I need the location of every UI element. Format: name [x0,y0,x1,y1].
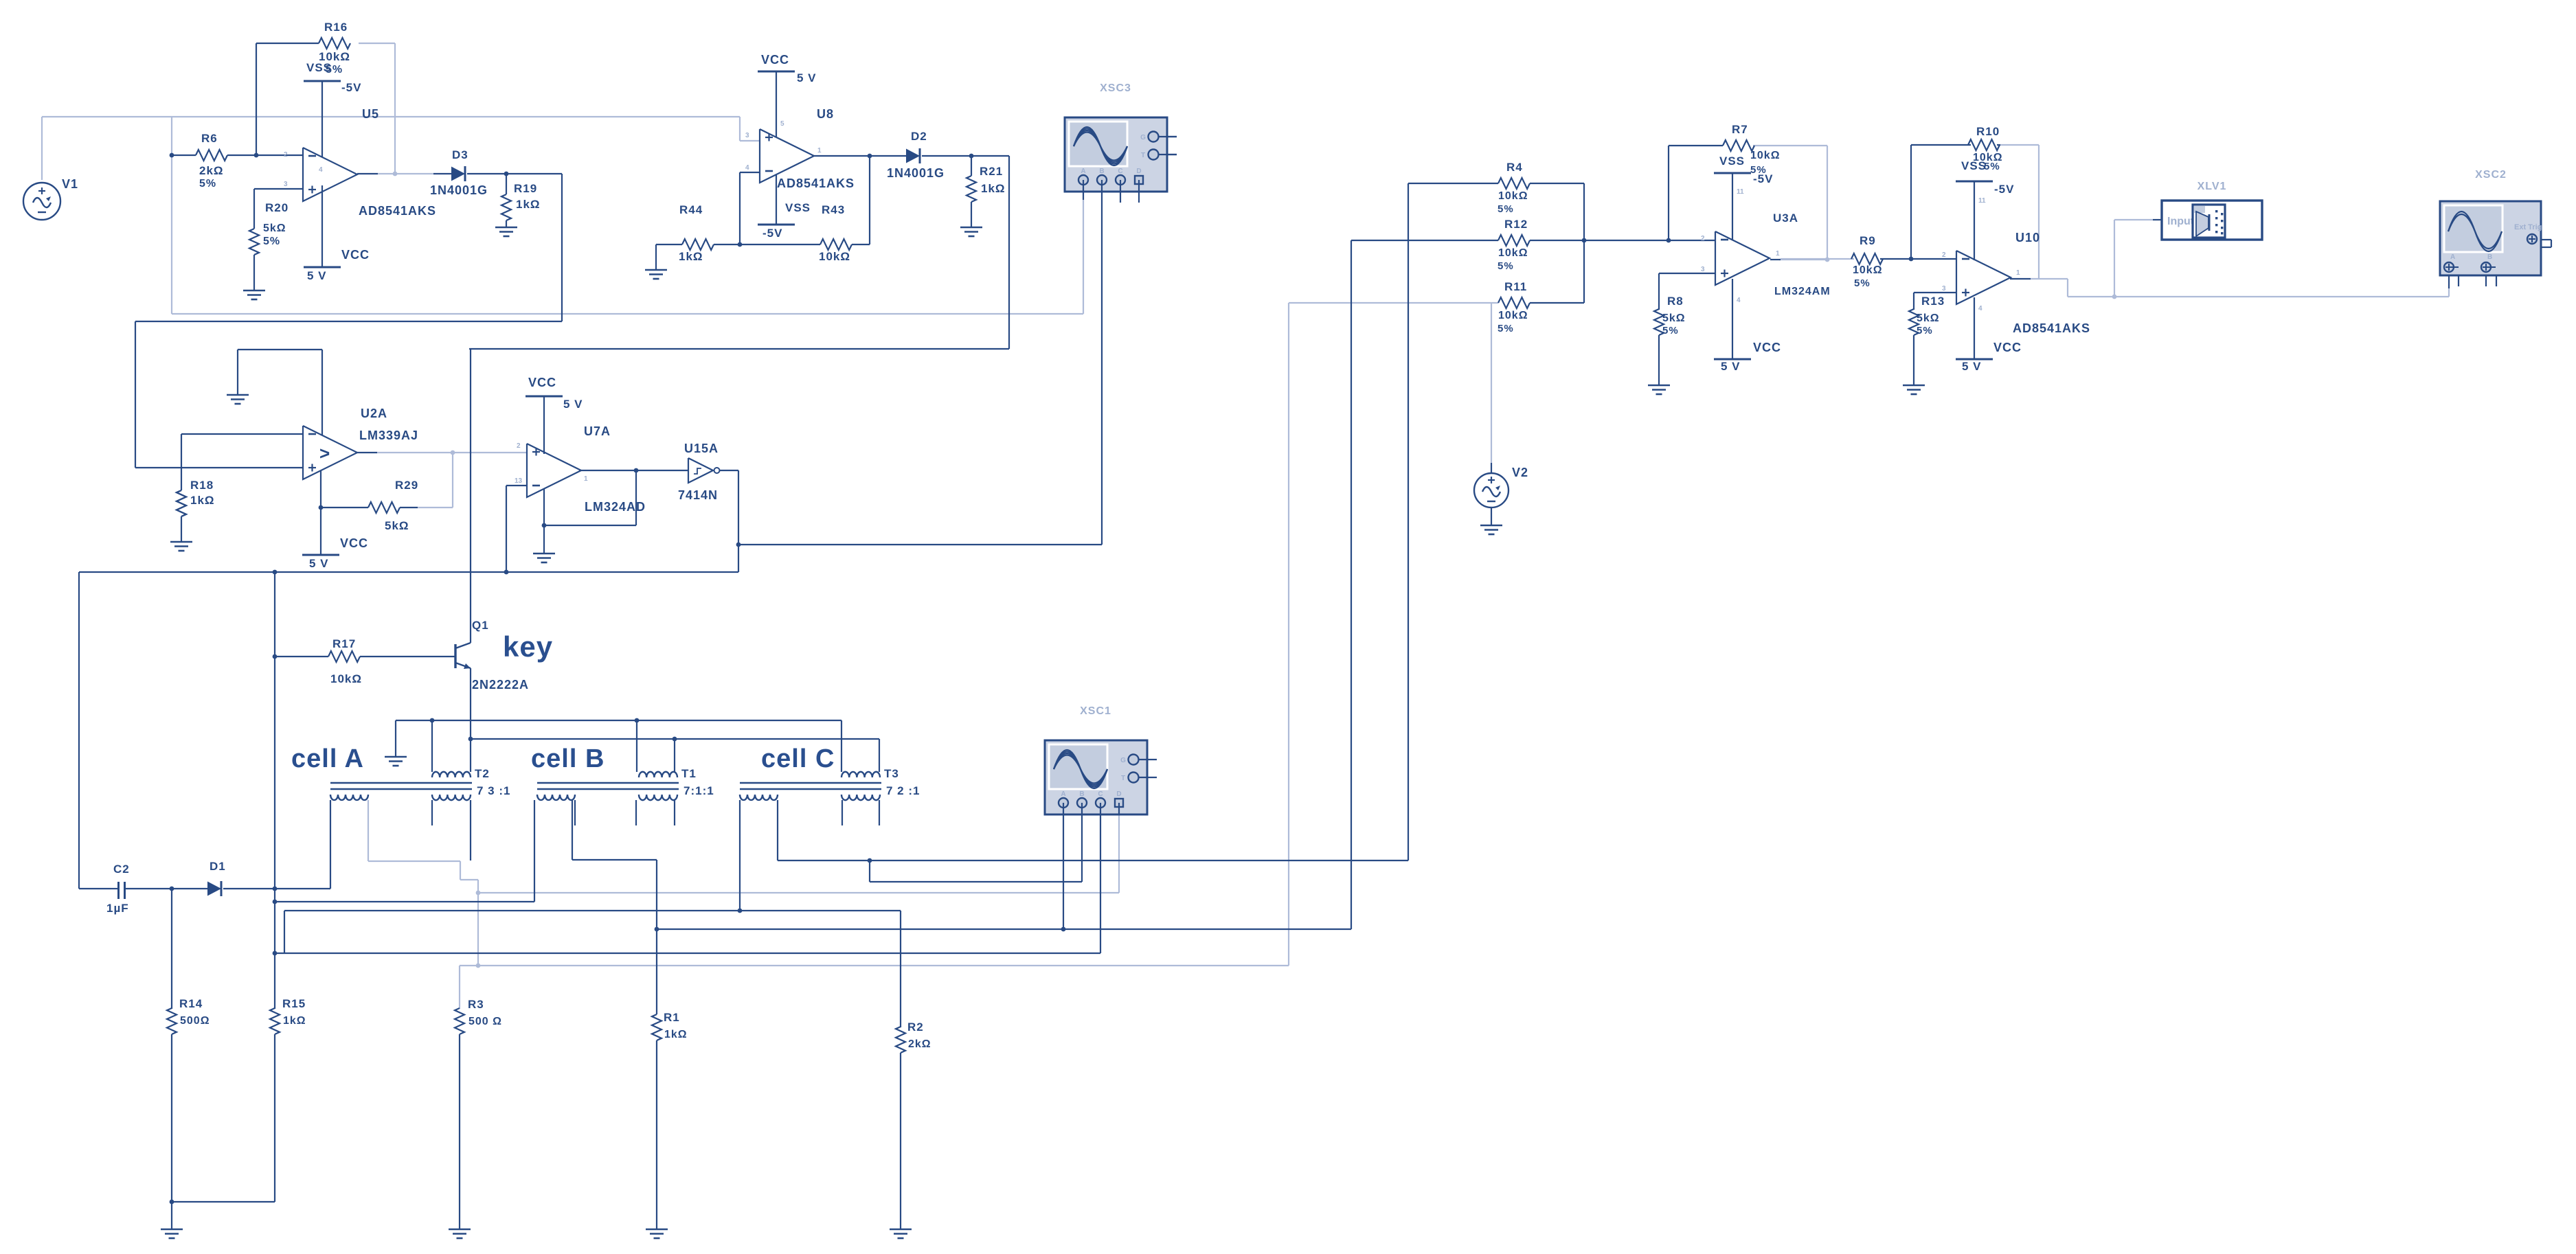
svg-text:B: B [1079,790,1084,798]
svg-text:5kΩ: 5kΩ [263,223,286,234]
svg-text:4: 4 [319,166,323,174]
svg-text:C: C [1118,168,1122,175]
svg-text:cell B: cell B [531,744,605,773]
svg-text:V2: V2 [1512,466,1528,479]
svg-text:VCC: VCC [341,248,370,262]
svg-text:-5V: -5V [1994,183,2014,196]
svg-text:R2: R2 [907,1021,924,1034]
svg-text:R13: R13 [1921,295,1945,308]
svg-text:Ext Trig: Ext Trig [2514,223,2542,231]
svg-text:cell A: cell A [291,744,364,773]
svg-text:2kΩ: 2kΩ [908,1038,931,1050]
svg-text:5 V: 5 V [563,398,583,411]
svg-text:VSS: VSS [1719,155,1745,168]
svg-text:A: A [1081,168,1085,175]
svg-text:10kΩ: 10kΩ [1750,150,1781,161]
svg-text:5%: 5% [199,178,216,190]
svg-text:R6: R6 [201,132,218,145]
svg-text:1kΩ: 1kΩ [679,250,703,263]
svg-text:5%: 5% [1662,325,1679,337]
svg-text:1kΩ: 1kΩ [664,1029,688,1040]
svg-text:cell C: cell C [761,744,835,773]
svg-text:T2: T2 [475,767,490,780]
svg-text:U5: U5 [362,107,379,121]
svg-text:Q1: Q1 [472,619,489,632]
svg-text:D1: D1 [210,860,226,873]
svg-text:7 3 :1: 7 3 :1 [477,784,510,797]
svg-text:5kΩ: 5kΩ [385,519,409,532]
svg-text:R9: R9 [1860,234,1876,247]
svg-text:LM324AD: LM324AD [585,500,646,514]
svg-text:5%: 5% [1498,323,1514,334]
svg-text:5%: 5% [1984,161,2000,172]
svg-text:10kΩ: 10kΩ [819,250,850,263]
svg-text:4: 4 [1978,305,1982,312]
svg-text:C: C [1098,790,1103,798]
svg-text:R14: R14 [179,997,203,1010]
svg-text:1: 1 [2016,269,2020,277]
svg-text:VSS: VSS [785,201,811,214]
svg-text:1kΩ: 1kΩ [190,494,215,507]
svg-text:R15: R15 [282,997,306,1010]
svg-text:5 V: 5 V [309,557,329,570]
svg-text:11: 11 [1737,188,1744,196]
svg-text:U8: U8 [817,107,834,121]
svg-text:XSC2: XSC2 [2475,169,2507,181]
svg-text:-5V: -5V [1753,172,1773,185]
svg-text:1: 1 [1776,250,1780,258]
svg-text:3: 3 [745,132,749,139]
svg-text:Input: Input [2167,216,2195,227]
svg-text:13: 13 [515,477,523,485]
svg-text:R19: R19 [514,182,537,195]
svg-text:5%: 5% [1498,203,1514,215]
svg-text:XSC1: XSC1 [1080,705,1111,717]
svg-text:R4: R4 [1506,161,1523,174]
svg-text:5: 5 [780,120,784,128]
svg-text:XLV1: XLV1 [2197,181,2227,192]
svg-text:A: A [2450,253,2455,261]
svg-text:3: 3 [284,181,288,188]
svg-text:5 V: 5 V [307,269,327,282]
svg-text:R21: R21 [980,165,1003,178]
svg-text:R29: R29 [395,479,418,492]
svg-text:A: A [1061,790,1065,798]
svg-text:1N4001G: 1N4001G [887,166,945,180]
svg-text:R10: R10 [1976,125,2000,138]
svg-text:T: T [1121,775,1125,782]
svg-text:10kΩ: 10kΩ [1498,247,1528,259]
svg-text:R20: R20 [265,201,289,214]
svg-text:D: D [1116,790,1121,798]
svg-text:2: 2 [1942,251,1946,259]
svg-text:U10: U10 [2015,231,2040,244]
svg-text:2: 2 [284,151,288,159]
svg-text:R11: R11 [1504,280,1527,293]
svg-text:R43: R43 [822,203,845,216]
svg-text:D3: D3 [452,148,468,161]
svg-text:1kΩ: 1kΩ [516,198,541,211]
svg-text:R17: R17 [332,637,356,650]
svg-text:2N2222A: 2N2222A [472,678,529,692]
svg-text:5%: 5% [1854,277,1871,289]
svg-text:LM339AJ: LM339AJ [359,429,418,442]
svg-text:5%: 5% [326,64,343,76]
svg-text:G: G [1120,757,1126,764]
svg-text:T3: T3 [884,767,899,780]
svg-text:7 2 :1: 7 2 :1 [886,784,920,797]
svg-text:R1: R1 [664,1011,680,1024]
svg-text:500 Ω: 500 Ω [468,1016,502,1027]
svg-text:VCC: VCC [340,536,368,550]
svg-text:4: 4 [745,164,749,172]
svg-text:T: T [1141,152,1145,159]
svg-text:11: 11 [1978,197,1986,205]
svg-text:2kΩ: 2kΩ [199,164,224,177]
svg-text:U15A: U15A [684,442,719,455]
svg-text:U7A: U7A [584,424,611,438]
svg-text:U3A: U3A [1773,212,1798,225]
svg-text:2: 2 [517,442,521,450]
svg-text:V1: V1 [62,177,78,191]
svg-text:U2A: U2A [361,407,387,420]
svg-text:500Ω: 500Ω [180,1015,210,1027]
svg-text:AD8541AKS: AD8541AKS [777,176,855,190]
svg-text:R18: R18 [190,479,214,492]
svg-text:VCC: VCC [761,53,789,67]
svg-text:5kΩ: 5kΩ [1662,312,1686,324]
svg-text:R7: R7 [1732,123,1748,136]
svg-text:key: key [503,630,553,663]
svg-text:R3: R3 [468,998,484,1011]
svg-text:10kΩ: 10kΩ [330,672,362,685]
svg-text:XSC3: XSC3 [1100,82,1131,94]
svg-text:R12: R12 [1504,218,1528,231]
svg-text:B: B [1099,168,1104,175]
svg-text:C2: C2 [113,863,130,876]
svg-text:5 V: 5 V [1962,360,1982,373]
svg-text:10kΩ: 10kΩ [1498,190,1528,202]
svg-text:5 V: 5 V [797,71,817,84]
svg-text:7:1:1: 7:1:1 [683,784,714,797]
svg-text:1N4001G: 1N4001G [430,183,488,197]
svg-text:D: D [1136,168,1141,175]
svg-text:5kΩ: 5kΩ [1917,312,1940,324]
svg-text:5%: 5% [263,236,280,247]
svg-text:G: G [1140,134,1146,141]
svg-text:VSS: VSS [1961,159,1987,172]
svg-text:1: 1 [584,475,588,483]
svg-text:10kΩ: 10kΩ [1498,310,1528,321]
svg-text:1kΩ: 1kΩ [981,182,1006,195]
svg-text:D2: D2 [911,130,927,143]
svg-text:4: 4 [1737,297,1741,304]
svg-text:VCC: VCC [528,376,556,389]
svg-text:5 V: 5 V [1721,360,1741,373]
svg-text:AD8541AKS: AD8541AKS [359,204,436,218]
svg-text:3: 3 [1701,266,1705,273]
svg-text:AD8541AKS: AD8541AKS [2013,321,2090,335]
svg-text:10kΩ: 10kΩ [1853,264,1883,276]
svg-text:-5V: -5V [762,227,782,240]
svg-text:R16: R16 [324,21,348,34]
svg-text:B: B [2487,253,2492,261]
svg-text:3: 3 [1942,285,1946,293]
svg-text:R44: R44 [679,203,703,216]
svg-text:>: > [319,443,330,464]
svg-text:5%: 5% [1917,325,1933,337]
svg-text:R8: R8 [1667,295,1684,308]
svg-text:5%: 5% [1498,260,1514,272]
svg-text:2: 2 [1701,235,1705,242]
svg-text:1µF: 1µF [106,902,129,915]
svg-text:T1: T1 [681,767,697,780]
svg-text:-5V: -5V [341,81,361,94]
svg-text:VCC: VCC [1753,341,1781,354]
svg-text:7414N: 7414N [678,488,718,502]
svg-text:LM324AM: LM324AM [1774,286,1831,297]
svg-text:1: 1 [817,147,822,155]
svg-text:1kΩ: 1kΩ [283,1015,306,1027]
svg-text:VCC: VCC [1993,341,2022,354]
